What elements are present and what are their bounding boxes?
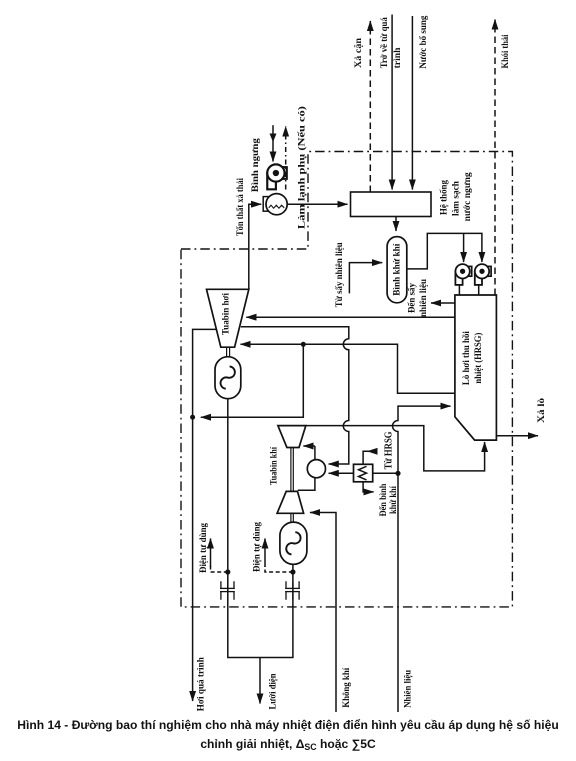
generator G1 (steam turbine) [215,357,241,399]
steam turbine [207,289,249,347]
svg-text:Từ sấy nhiên liệu: Từ sấy nhiên liệu [334,242,344,307]
wire: feed pump discharges to HRSG [459,285,478,295]
svg-text:nhiên liệu: nhiên liệu [418,279,428,317]
svg-text:Trở về từ quá: Trở về từ quá [379,17,389,68]
svg-text:Bình khử khí: Bình khử khí [392,243,402,296]
wire: Khoi thai (flue gas out, dashed up) [494,20,496,296]
wire: air inlet [310,513,336,713]
wire: Xa can (blowdown out, dashed up) [369,21,371,192]
wire: Luoi dien (grid out) [259,658,261,704]
svg-text:Hệ thống: Hệ thống [439,180,449,215]
svg-text:Hình 14 - Đường bao thí nghiệm: Hình 14 - Đường bao thí nghiệm cho nhà m… [17,718,558,732]
svg-text:Đến sấy: Đến sấy [407,283,417,313]
svg-text:trình: trình [392,47,402,68]
svg-text:Làm lạnh phụ (Nếu có): Làm lạnh phụ (Nếu có) [296,106,306,229]
condenser shell [266,194,287,215]
transformer T1 [220,581,235,600]
svg-text:Điện tự dùng: Điện tự dùng [252,522,262,572]
wire: polishing box to deaerator [395,217,397,232]
condensate polishing box [351,192,432,217]
svg-text:Tuabin khí: Tuabin khí [268,447,278,485]
svg-text:Lưới điện: Lưới điện [268,674,278,710]
wire: heater to fuel line junction [373,472,398,474]
gas turbine expander [278,426,306,448]
wire: main steam HRSG to steam turbine [246,316,455,318]
wire: aux cooling return (dash-dot up) [285,127,287,190]
shaft ST-generator [227,347,230,357]
wire: Xa lo (HRSG blowdown out) [496,435,538,437]
svg-text:khử khí: khử khí [388,486,398,514]
wire: tu HRSG into heater [363,451,375,464]
wire: G1 output to transformer and grid [228,399,260,658]
shaft GT-generator [291,513,293,522]
svg-text:Đến bình: Đến bình [378,484,388,517]
wire: branch from LP line down and left to process steam line [201,344,303,417]
wire: aux power tap 1 (dashed) [211,566,228,572]
svg-text:Tổn thất xả thải: Tổn thất xả thải [235,178,245,236]
svg-text:chỉnh giải nhiệt, ΔSC hoặc ∑5C: chỉnh giải nhiệt, ΔSC hoặc ∑5C [200,737,376,752]
svg-text:Không khí: Không khí [341,667,351,707]
fuel gas heater (M box) [354,464,373,482]
HRSG [455,295,497,440]
transformer T2 [285,581,300,600]
svg-text:làm sạch: làm sạch [451,181,461,216]
svg-text:Từ HRSG: Từ HRSG [384,431,395,469]
wire: condensate from condenser to polishing box [287,203,348,205]
svg-text:nhiệt (HRSG): nhiệt (HRSG) [473,333,483,384]
svg-text:nước ngưng: nước ngưng [462,172,472,222]
combustor ducts [303,445,315,447]
svg-text:Điện tự dùng: Điện tự dùng [198,523,208,573]
deaerator vessel [387,237,407,303]
junction dots [301,342,306,347]
wire: G2 output to transformer [260,564,293,657]
feed pump A [455,264,471,285]
svg-text:Hơi quá trình: Hơi quá trình [196,657,206,711]
test boundary (dash-dot envelope) [181,152,512,607]
svg-text:Xả lò: Xả lò [536,397,546,423]
svg-text:Khói thải: Khói thải [500,34,510,68]
svg-text:Tuabin hơi: Tuabin hơi [221,293,231,335]
wire: heater to deaerator (den binh khu khi) [363,482,374,492]
wire: LP steam from HRSG to steam turbine [241,344,455,393]
svg-text:Xả cặn: Xả cặn [353,38,363,68]
wire: tu say nhien lieu stub into deaerator [349,263,382,294]
feed pump B [475,264,491,285]
wire: ST extraction riser to GT steam injection (with crossover humps) [241,327,349,464]
wire: fuel to combustor [329,472,354,474]
wire: GT exhaust to HRSG [306,426,485,471]
wire: Tro ve tu qua trinh (return from process, down) [391,15,393,190]
condenser circulating pump [267,164,287,189]
condenser waterbox [263,197,270,212]
wire: ST exhaust up to condenser [249,204,261,289]
shaft GT [291,448,293,492]
wire: fuel line (with crossover hump) and duct burner [393,406,451,712]
wire: feed pump A suction branch [463,233,465,262]
combustor [307,460,325,478]
generator G2 (gas turbine) [280,522,307,564]
svg-text:Nước bổ sung: Nước bổ sung [418,15,428,68]
labels (rotated) [196,15,547,711]
wire: den say nhien lieu from HRSG [431,302,455,304]
wire: circulating water in (down, double arrow) [272,125,274,161]
wire: Nuoc bo sung (makeup water, down) [411,16,413,190]
svg-text:Nhiên liệu: Nhiên liệu [402,670,412,708]
svg-text:Lò hơi thu hồi: Lò hơi thu hồi [461,331,471,385]
svg-text:Bình ngưng: Bình ngưng [250,138,260,193]
wire: deaerator to feed pumps [407,233,482,269]
wire: aux power tap 2 (dashed) [265,566,293,572]
wire: ST left extraction / process steam out [193,329,217,701]
compressor [277,491,304,513]
